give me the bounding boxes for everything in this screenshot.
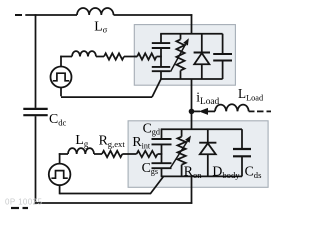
upper switch model box	[134, 25, 235, 86]
capacitor C_dc	[23, 108, 47, 110]
resistor R_int	[137, 151, 158, 157]
capacitor upper C_gs	[152, 66, 170, 68]
lower MOSFET model box	[128, 121, 268, 188]
dashed continuation load	[257, 110, 264, 112]
node source bus upper box	[160, 78, 222, 80]
wire bottom rail	[35, 202, 193, 204]
diode D_body	[207, 129, 209, 143]
capacitor upper C_ds	[222, 34, 224, 54]
wire source exit to bottom rail	[191, 176, 193, 203]
wire drain drop upper box	[191, 14, 193, 34]
wire lower source to kelvin return	[59, 185, 61, 194]
wire switch-node output	[191, 79, 193, 112]
capacitor C_gs	[152, 162, 172, 164]
resistor upper internal gate	[134, 56, 137, 58]
variable resistor R_on	[181, 129, 183, 137]
node drain bus lower box	[161, 128, 242, 130]
inductor upper gate parasitic	[72, 51, 96, 56]
dashed continuation top-left	[15, 14, 22, 16]
wire kelvin source return	[60, 176, 164, 193]
inductor L_g	[68, 148, 94, 154]
pulse source upper gate driver	[51, 67, 72, 88]
wire top rail left	[25, 14, 77, 16]
wire left rail upper	[35, 14, 37, 108]
wire gate lower	[59, 153, 61, 163]
capacitor C_ds	[241, 129, 243, 149]
wire load branch arrow i_Load	[199, 108, 208, 115]
diode upper body diode	[201, 34, 203, 53]
inductor L_sigma	[77, 8, 114, 15]
pulse source lower gate driver	[49, 164, 71, 186]
wire upper source return	[60, 88, 62, 97]
variable resistor upper R_on	[180, 34, 182, 40]
resistor R_g,ext	[94, 153, 102, 155]
capacitor C_gd	[161, 129, 163, 139]
wire top rail right	[114, 14, 193, 16]
svg-text:0P 10025: 0P 10025	[5, 198, 42, 207]
capacitor upper C_gd	[160, 34, 162, 43]
wire drain into lower box	[191, 111, 193, 130]
inductor L_Load	[215, 104, 249, 111]
wire left rail lower	[35, 116, 37, 204]
node switch-node junction dot	[189, 109, 195, 115]
node source bus lower box	[161, 175, 242, 177]
resistor upper R_g,ext	[96, 56, 104, 58]
wire gate upper	[60, 56, 62, 67]
node drain bus upper box	[160, 33, 222, 35]
